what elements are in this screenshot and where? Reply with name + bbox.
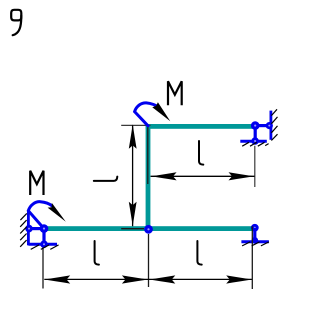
arrow up vertical dimension (129, 124, 137, 149)
bottom right support bottom hinge (252, 237, 259, 244)
moment arrowhead top (152, 102, 170, 121)
extension line bottom-left dimension (42, 246, 44, 288)
hatching right top support ground (242, 142, 268, 146)
arrow right top dimension (229, 172, 255, 180)
label l top dimension (199, 141, 203, 165)
right top support ground line (240, 140, 266, 143)
dimension line bottom (44, 278, 252, 280)
label l bottom-left dimension (95, 241, 99, 265)
extension line top of vertical dimension (121, 124, 150, 126)
left support bottom hinge (40, 240, 48, 248)
arrow left bottom-right dimension (149, 275, 175, 283)
label 9 problem number (11, 10, 21, 35)
moment arc left (attached to left support node) (28, 202, 52, 229)
beam top horizontal member (146, 124, 253, 129)
right top support wall hinge (266, 122, 273, 129)
right top support node hinge (251, 121, 260, 130)
right top support link vertical (254, 126, 257, 141)
right top support wall (269, 111, 272, 140)
label l rotated vertical dimension (94, 177, 118, 181)
extension line right support top dimension (254, 146, 256, 187)
dimension line vertical l (132, 125, 134, 226)
hatching bottom right support ground (242, 242, 269, 246)
arrow left top dimension (151, 172, 177, 180)
extension line on column for top dimension (147, 127, 149, 184)
frame junction hinge (144, 225, 153, 234)
right top support link horizontal (255, 124, 269, 127)
extension line bottom-right dimension (over support) (251, 226, 253, 289)
arrow down vertical dimension (129, 202, 137, 227)
left support wall hinge (25, 225, 33, 233)
hatching left support ground (31, 245, 59, 250)
column vertical member (146, 124, 151, 231)
extension line bottom-middle dimension (148, 234, 150, 287)
arrow right bottom-left dimension (122, 275, 148, 283)
label M top moment (168, 81, 182, 105)
bottom right support link vertical (253, 228, 256, 241)
label M left moment (30, 171, 43, 195)
hatching left support wall (20, 213, 27, 246)
moment arrowhead left (48, 203, 66, 222)
beam bottom horizontal member (45, 226, 253, 231)
arrow right bottom-right dimension (226, 275, 252, 283)
left support ground line (28, 243, 57, 246)
left support link horizontal (29, 227, 44, 230)
arrow left bottom-left dimension (44, 275, 70, 283)
left support node hinge (40, 224, 49, 233)
moment arc top (attached to frame corner) (135, 103, 159, 126)
right top support bottom hinge (251, 137, 259, 145)
hatching right top support wall (271, 109, 277, 140)
left support link vertical (42, 229, 45, 245)
label l bottom-right dimension (197, 241, 201, 265)
dimension line top l (151, 175, 255, 177)
bottom right support ground line (241, 240, 269, 243)
extension line bottom of vertical dimension (121, 228, 144, 230)
bottom right support node hinge (251, 224, 259, 232)
left support wall (27, 211, 30, 245)
